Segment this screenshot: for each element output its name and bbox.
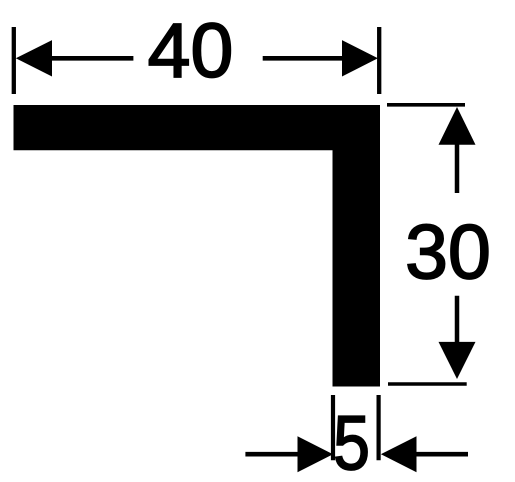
extension tick left (40 dim) — [12, 27, 16, 94]
dimension line 30 upper segment — [455, 141, 460, 193]
svg-text:30: 30 — [405, 210, 491, 296]
arrowhead 5 right — [381, 436, 417, 472]
dimension line 40 left segment — [48, 56, 133, 61]
dimension line 30 lower segment — [455, 296, 460, 345]
dimension line 40 right segment — [263, 56, 346, 61]
dimension line 5 right segment — [413, 452, 468, 457]
arrowhead 40 right — [342, 40, 378, 76]
arrowhead 5 left — [298, 436, 334, 472]
extension line bottom (30 dim) — [388, 382, 467, 386]
extension tick right (40 dim) — [377, 27, 381, 94]
extension tick right (5 dim) — [377, 395, 381, 460]
arrowhead 30 down — [439, 342, 476, 379]
svg-text:40: 40 — [148, 8, 234, 94]
arrowhead 40 left — [16, 40, 52, 76]
arrowhead 30 up — [439, 107, 476, 145]
svg-text:5: 5 — [333, 401, 370, 482]
extension line top (30 dim) — [387, 103, 465, 107]
dimension line 5 left segment — [245, 452, 301, 457]
extension tick left (5 dim) — [331, 395, 335, 460]
L-profile cross-section — [14, 105, 381, 387]
